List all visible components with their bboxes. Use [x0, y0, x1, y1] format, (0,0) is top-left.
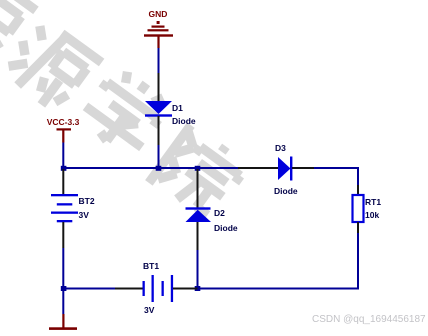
resistor RT1: [353, 185, 382, 233]
wire: [314, 167, 359, 169]
power bar bottom: [49, 314, 77, 330]
node junction D2: [195, 166, 201, 171]
svg-text:CSDN @qq_1694456187: CSDN @qq_1694456187: [312, 314, 426, 325]
svg-text:VCC-3.3: VCC-3.3: [47, 117, 80, 127]
wire main horizontal: [62, 167, 238, 169]
battery BT2: [51, 169, 95, 248]
power VCC-3.3: [47, 117, 80, 143]
svg-text:BT2: BT2: [79, 196, 95, 206]
node junction D1: [156, 166, 162, 171]
diode D2: [186, 169, 238, 250]
svg-text:Diode: Diode: [172, 116, 196, 126]
svg-text:D1: D1: [172, 103, 183, 113]
svg-text:RT1: RT1: [365, 197, 381, 207]
svg-text:Diode: Diode: [274, 186, 298, 196]
svg-text:GND: GND: [149, 9, 168, 19]
wire bottom-right segment: [198, 288, 360, 290]
svg-text:BT1: BT1: [143, 261, 159, 271]
wire: [62, 143, 64, 169]
diode D1: [145, 73, 196, 145]
battery BT1: [115, 261, 198, 315]
wire bottom-left segment: [62, 288, 115, 290]
node junction bottom-left: [61, 286, 67, 291]
wire right vertical bottom: [357, 233, 359, 290]
wire: [158, 145, 160, 168]
wire right vertical top: [357, 167, 359, 185]
wire: [62, 248, 64, 290]
node junction VCC rail: [61, 166, 67, 171]
svg-text:D2: D2: [214, 208, 225, 218]
wire: [197, 250, 199, 290]
svg-text:10k: 10k: [365, 210, 379, 220]
svg-text:D3: D3: [275, 143, 286, 153]
ground GND: [144, 9, 173, 48]
svg-text:3V: 3V: [79, 210, 90, 220]
svg-text:3V: 3V: [144, 305, 155, 315]
diode D3: [238, 143, 314, 196]
wire: [62, 289, 64, 314]
wire: [158, 48, 160, 73]
node junction bottom-center: [195, 286, 201, 291]
svg-text:Diode: Diode: [214, 223, 238, 233]
